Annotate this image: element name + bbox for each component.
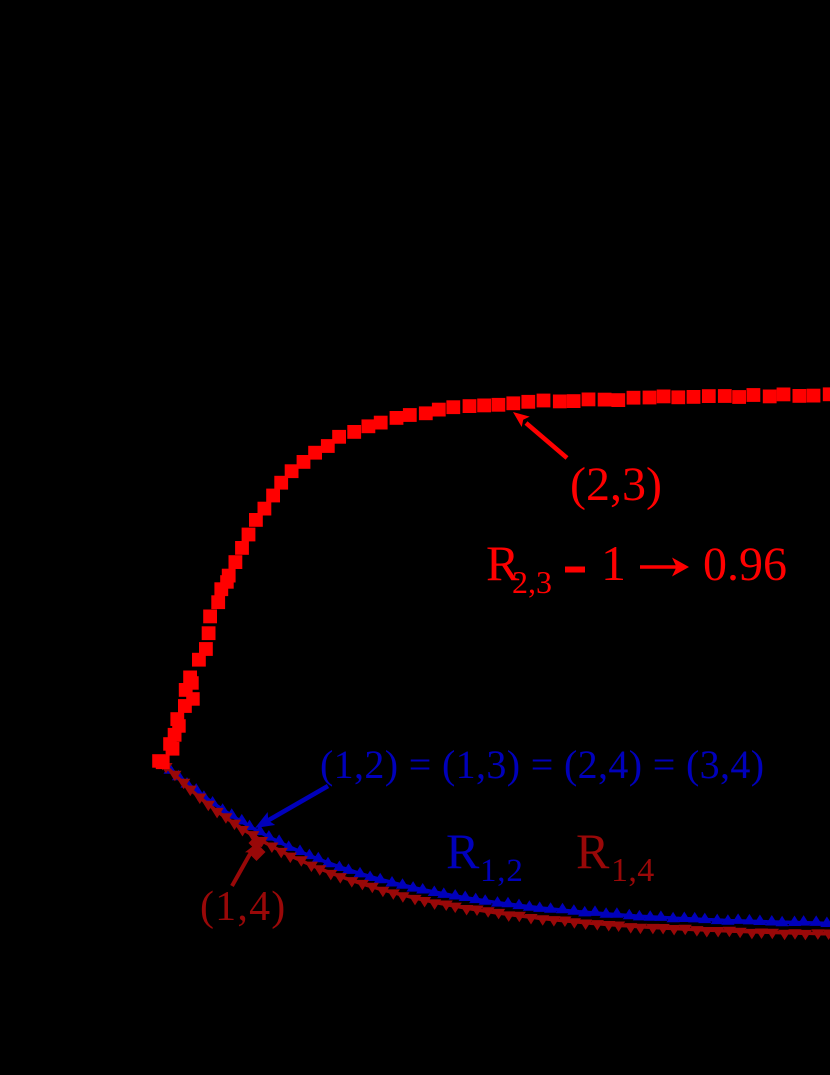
svg-text:1,2: 1,2 [480, 853, 524, 889]
maroon annotation arrow to (1,4) curve [232, 835, 266, 886]
svg-text:(1,2) = (1,3) = (2,4) = (3,4): (1,2) = (1,3) = (2,4) = (3,4) [320, 742, 764, 787]
svg-text:(2,3): (2,3) [570, 458, 662, 511]
svg-text:1,4: 1,4 [611, 852, 655, 889]
svg-text:1: 1 [601, 535, 626, 591]
svg-text:(1,4): (1,4) [200, 884, 286, 930]
svg-text:R: R [446, 823, 480, 879]
curve R14 maroon triangle markers [156, 760, 830, 941]
curve R12 blue triangle markers [156, 754, 830, 927]
curve R23 red squares series [152, 387, 830, 769]
svg-text:0.96: 0.96 [703, 538, 787, 591]
blue annotation arrow to blue curve [255, 786, 328, 828]
long right arrow glyph [640, 558, 689, 577]
red annotation arrow to (2,3) curve [513, 412, 567, 458]
svg-text:R: R [576, 823, 610, 879]
curve R14 maroon line [163, 763, 830, 934]
curve R12 blue line [163, 762, 830, 923]
svg-text:2,3: 2,3 [512, 564, 552, 600]
